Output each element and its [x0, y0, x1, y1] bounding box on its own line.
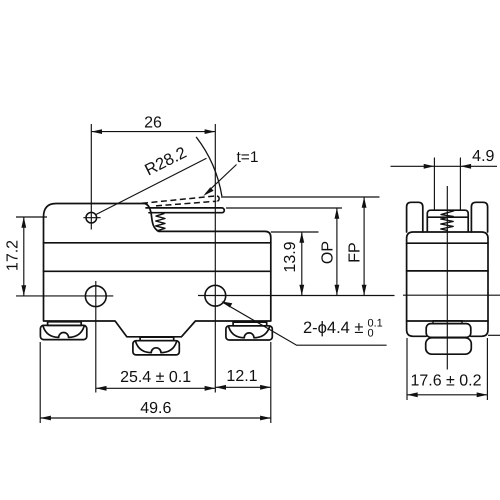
dashed lever (free position)	[142, 196, 216, 206]
terminal screw middle	[133, 337, 179, 355]
left hole vertical centerline	[95, 281, 97, 393]
right view body	[407, 232, 488, 336]
dim 4.9	[391, 165, 498, 167]
svg-text:R28.2: R28.2	[142, 144, 189, 180]
49.6 left extension line	[39, 342, 41, 423]
spring (left view)	[156, 214, 165, 231]
17.6 extension line left	[406, 338, 408, 400]
13.9 extension line	[271, 231, 319, 233]
spring (right view)	[441, 211, 454, 231]
lever (solid, operating position)	[146, 208, 224, 213]
dim 12.1	[215, 386, 270, 388]
svg-text:25.4 ± 0.1: 25.4 ± 0.1	[120, 369, 191, 386]
hinge centerline cross	[83, 217, 100, 219]
hinge pivot circle	[86, 212, 97, 223]
R28.2 leader line	[96, 158, 207, 215]
stray extension line right	[488, 334, 500, 336]
mounting hole right	[205, 285, 226, 306]
svg-text:OP: OP	[319, 241, 336, 264]
dim 26	[91, 131, 215, 133]
svg-text:FP: FP	[347, 242, 364, 262]
bottom screw lower body	[426, 338, 472, 354]
horizontal centerline through left hole	[16, 295, 113, 297]
plunger / right hole vertical centerline	[214, 124, 216, 393]
right view seam 3	[407, 320, 488, 322]
plunger cap	[427, 210, 468, 231]
lever swing arc R28.2	[196, 137, 222, 196]
terminal screw left	[40, 322, 86, 340]
49.6/12.1 right extension line	[270, 342, 272, 423]
svg-text:4.9: 4.9	[472, 148, 494, 165]
dashed lever tip cap	[217, 196, 219, 201]
svg-text:2-ϕ4.4 ±: 2-ϕ4.4 ±	[303, 319, 364, 337]
body seam line 2	[44, 270, 271, 272]
2-phi4.4 leader	[221, 301, 386, 345]
right view vertical centerline	[446, 186, 448, 370]
svg-text:12.1: 12.1	[226, 368, 257, 385]
dim 25.4	[96, 387, 216, 389]
body seam line 1	[44, 242, 271, 244]
svg-text:17.2: 17.2	[5, 240, 22, 271]
bottom screw upper body	[426, 324, 471, 338]
right view seam 2	[407, 270, 488, 272]
FP extension line	[221, 196, 380, 198]
t=1 leader arrow	[203, 165, 236, 196]
left side tab	[407, 202, 423, 232]
svg-text:49.6: 49.6	[140, 400, 171, 417]
dim OP	[336, 208, 338, 296]
4.9 extension line left	[433, 158, 435, 210]
svg-text:t=1: t=1	[237, 149, 259, 166]
right view horizontal centerline	[403, 294, 500, 296]
dim 17.2	[23, 217, 25, 296]
terminal screw right	[226, 322, 272, 340]
plunger cap base line	[427, 216, 468, 218]
switch body outline (left view)	[44, 204, 271, 337]
17.2 top extension line	[16, 216, 47, 218]
dim 49.6	[40, 417, 271, 419]
right side tab	[471, 202, 487, 232]
dim 17.6	[407, 394, 487, 396]
svg-text:13.9: 13.9	[282, 241, 299, 272]
bottom screw plate	[433, 321, 462, 324]
dim FP	[363, 197, 365, 296]
17.6 extension line right	[486, 338, 488, 400]
right view seam 1	[407, 242, 488, 244]
mounting hole left	[85, 286, 106, 307]
svg-text:17.6 ± 0.2: 17.6 ± 0.2	[410, 373, 481, 390]
dim 13.9	[301, 232, 303, 296]
svg-text:26: 26	[144, 115, 162, 132]
hinge vertical extension (26 dim left)	[90, 124, 92, 230]
svg-text:0: 0	[368, 328, 374, 340]
OP extension line	[226, 207, 342, 209]
horizontal centerline through right hole to right dims	[198, 295, 395, 297]
4.9 extension line right	[459, 158, 461, 210]
